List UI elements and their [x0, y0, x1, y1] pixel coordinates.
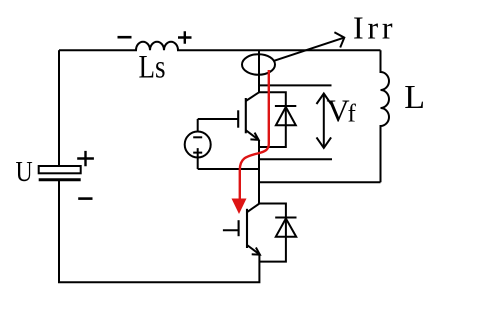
- svg-text:L: L: [404, 79, 425, 116]
- svg-text:f: f: [348, 101, 357, 128]
- svg-text:V: V: [327, 93, 350, 129]
- svg-text:Irr: Irr: [353, 9, 396, 45]
- svg-text:Ls: Ls: [139, 48, 166, 85]
- svg-text:U: U: [16, 155, 33, 188]
